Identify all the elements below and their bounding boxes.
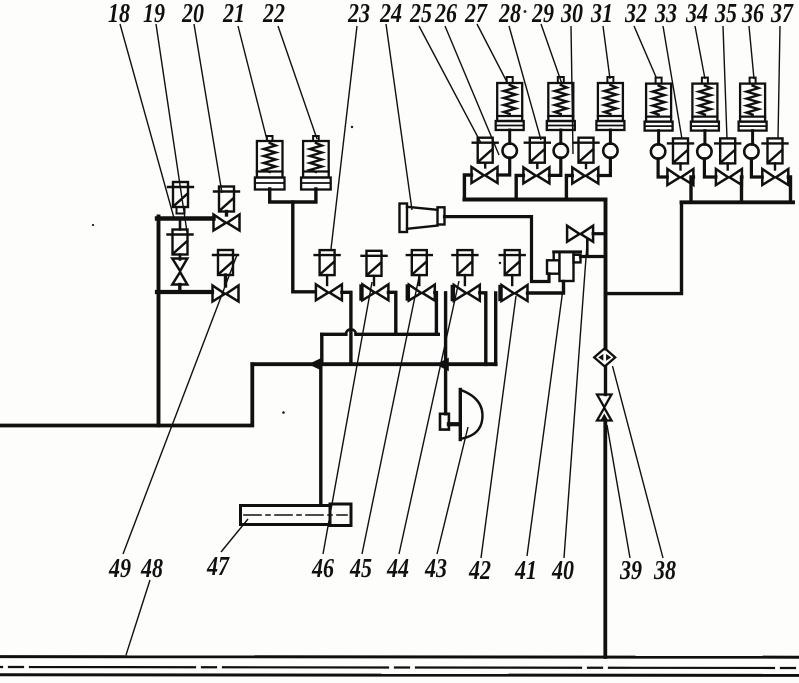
valve M2 box <box>362 251 387 276</box>
wire: hop arc at crossing <box>346 329 356 334</box>
wire: horn line to pump <box>445 217 550 282</box>
leader 47 <box>221 519 248 552</box>
wire: pump outlet to trunk <box>581 255 606 258</box>
wire: collector line y334 <box>322 333 439 336</box>
leader 43 <box>437 427 468 554</box>
wire: lower-left header pipe <box>157 290 212 294</box>
leader 33 <box>663 26 682 139</box>
wire: M1 outlet down to bus (with hop over y334 line) <box>342 292 351 364</box>
leader 34 <box>695 26 705 79</box>
wire: stem box20 to bowtie20 <box>225 212 228 216</box>
svg-text:37: 37 <box>770 0 794 28</box>
valve M4 box <box>452 250 477 275</box>
wire: valve 40 to trunk <box>593 232 605 235</box>
wire: drop from 21/22 manifold <box>293 202 314 292</box>
wire: left rail vertical <box>157 217 161 426</box>
valve 19 <box>168 230 193 255</box>
leader 40 <box>564 244 587 558</box>
wire: rod L2 <box>559 130 562 144</box>
svg-text:25: 25 <box>409 0 432 28</box>
leader 25 <box>419 26 481 143</box>
svg-text:19: 19 <box>143 0 165 28</box>
svg-text:20: 20 <box>181 0 204 28</box>
leader 24 <box>386 24 412 210</box>
valve M3 bowtie <box>409 285 435 301</box>
wire: collector drop to bus <box>320 334 323 364</box>
valve 23 box <box>315 250 340 275</box>
check valve (vertical bowtie) below 19 <box>172 259 187 285</box>
filter 38 diamond <box>594 348 615 366</box>
leader 30 <box>571 26 573 154</box>
wire: L2 to bus <box>516 175 523 199</box>
valve M2 bowtie <box>362 284 388 300</box>
svg-text:46: 46 <box>311 553 334 583</box>
svg-text:28: 28 <box>498 0 521 28</box>
gauge R1 <box>651 144 665 158</box>
wire: gauge L3 to bowtie <box>598 158 610 176</box>
svg-text:24: 24 <box>379 0 402 28</box>
leader 37 <box>778 26 780 139</box>
cylinder 34 <box>691 78 719 131</box>
wire: valve 40 branch down <box>586 240 589 257</box>
svg-text:33: 33 <box>654 0 677 28</box>
svg-text:44: 44 <box>386 553 409 583</box>
svg-text:35: 35 <box>714 0 737 28</box>
pipe 48 centerline <box>0 667 799 668</box>
leader 45 <box>362 277 419 554</box>
cylinder 31 <box>596 77 624 130</box>
wire: M5 inlet riser from bus end <box>494 293 497 364</box>
svg-text:47: 47 <box>206 551 230 581</box>
wire: rod L3 <box>609 130 612 144</box>
wire: drop to bar 47 <box>319 364 322 505</box>
valve M5 bowtie <box>502 285 528 301</box>
svg-text:38: 38 <box>653 555 676 585</box>
valve 39 (vertical bowtie with arrow) <box>597 395 612 422</box>
node: junction dart left <box>310 358 323 370</box>
bowtie R1 <box>667 169 693 185</box>
wire: R3 to bus <box>788 177 790 202</box>
wire: supply line from left edge <box>0 364 252 425</box>
wire: main bus <box>252 362 495 366</box>
svg-text:21: 21 <box>222 0 245 28</box>
svg-text:48: 48 <box>140 553 163 583</box>
manifold bar 47 <box>241 504 352 526</box>
svg-text:26: 26 <box>434 0 457 28</box>
scan specks <box>92 10 526 414</box>
node: junction dart right <box>437 358 449 370</box>
gauge R2 <box>697 144 711 158</box>
valve 49 box <box>213 250 238 275</box>
wire: gauge R1 to bowtie <box>658 159 667 177</box>
wire: trunk upper <box>604 200 608 349</box>
leader 39 <box>607 425 630 558</box>
wire: M5 outlet to pump <box>528 282 564 294</box>
wire: gauge R3 to bowtie <box>751 159 762 177</box>
gauge R3 <box>744 144 758 158</box>
wire: R2 to bus <box>740 177 744 202</box>
svg-text:42: 42 <box>468 555 491 585</box>
valve 33 box <box>668 138 693 163</box>
wire: L3 to bus <box>566 176 572 200</box>
valve M2 inlet bracket <box>359 286 361 300</box>
wire: trunk lower to bottom pipe <box>603 422 607 658</box>
leader 41 <box>527 289 563 556</box>
leader 35 <box>723 26 727 139</box>
shutoff valve 49 bowtie <box>213 286 239 302</box>
wire: top-left header pipe <box>157 216 214 220</box>
pump 41 <box>547 252 581 281</box>
wire: M3 outlet to collector <box>435 293 437 335</box>
valve 35 box <box>715 138 740 163</box>
bowtie L2 <box>523 167 549 183</box>
wire: U manifold under 21/22 <box>270 189 316 202</box>
wire: M4 outlet drop <box>480 293 486 365</box>
svg-text:30: 30 <box>560 0 583 28</box>
bowtie L1 <box>472 167 498 183</box>
valve M3 inlet bracket <box>406 286 408 300</box>
cylinder 27 <box>496 77 524 130</box>
svg-text:32: 32 <box>624 0 647 28</box>
bowtie L3 <box>572 168 598 184</box>
valve 28 box <box>525 138 550 163</box>
gauge 26 <box>503 144 517 158</box>
leader 42 <box>481 296 516 558</box>
wire: trunk mid <box>604 367 607 395</box>
svg-text:34: 34 <box>685 0 708 28</box>
valve M5 box <box>500 250 525 275</box>
wire: L1 to bus <box>464 175 471 200</box>
cylinder 29 <box>547 77 575 130</box>
wire: stem box19 to check valve <box>179 255 182 260</box>
leader 44 <box>399 281 459 554</box>
svg-text:31: 31 <box>590 0 613 28</box>
leader 48 <box>126 580 150 655</box>
leader 49 <box>123 255 237 554</box>
gauge L3 <box>603 144 617 158</box>
bowtie R2 <box>716 169 742 185</box>
cylinder 32 <box>645 78 673 131</box>
leader 36 <box>749 26 754 79</box>
wire: stem box49 to bowtie49 <box>224 275 227 286</box>
pipe 48 top edge <box>0 655 799 659</box>
gauge 30 <box>554 144 568 158</box>
valve 18 <box>168 182 193 214</box>
wire: right bank bus <box>682 200 794 204</box>
svg-text:36: 36 <box>741 0 764 28</box>
svg-text:23: 23 <box>347 0 370 28</box>
svg-text:22: 22 <box>262 0 285 28</box>
wire: gauge L1 to bowtie <box>498 158 510 175</box>
svg-text:45: 45 <box>349 553 372 583</box>
leader 27 <box>477 24 508 84</box>
leader 23 <box>331 26 357 249</box>
pedal bracket <box>440 414 449 430</box>
wire: right bank return <box>606 202 682 293</box>
leader 20 <box>194 24 222 193</box>
leader 46 <box>323 282 372 554</box>
leader 26 <box>445 26 499 155</box>
shutoff valve 20 bowtie <box>214 215 240 231</box>
valve 25 box <box>473 138 498 163</box>
leader 32 <box>634 26 656 77</box>
valve M5 inlet bracket <box>498 286 500 300</box>
leader 28 <box>509 26 541 140</box>
valve M3 box <box>407 250 432 275</box>
leader 22 <box>278 26 317 139</box>
cylinder 36 <box>739 78 767 131</box>
wire: left bank bus <box>464 198 605 202</box>
leader 29 <box>541 24 562 84</box>
wire: gauge R2 to bowtie <box>704 159 716 177</box>
valve M4 bowtie <box>454 285 480 301</box>
svg-text:43: 43 <box>424 553 447 583</box>
svg-text:29: 29 <box>531 0 554 28</box>
bowtie R3 <box>762 169 788 185</box>
wire: R1 to bus <box>691 177 693 202</box>
cylinder 21 <box>255 136 285 190</box>
valve 40 bowtie <box>567 226 593 242</box>
svg-text:49: 49 <box>108 553 131 583</box>
pipe 48 bottom edge <box>0 673 799 677</box>
svg-text:41: 41 <box>514 555 537 585</box>
leader 19 <box>156 24 187 232</box>
svg-text:39: 39 <box>619 555 642 585</box>
wire: M4 inlet riser / pedal line <box>444 293 447 414</box>
wire: stem check valve to lower pipe <box>178 285 181 293</box>
leader 38 <box>613 366 664 558</box>
valve L3 box <box>574 138 599 163</box>
svg-text:18: 18 <box>108 0 130 28</box>
horn 24 <box>400 204 445 233</box>
leader 31 <box>603 26 610 79</box>
leader 21 <box>238 26 267 140</box>
valve M4 inlet bracket <box>451 286 453 300</box>
leader 18 <box>120 24 174 218</box>
pedal plate <box>460 390 482 440</box>
valve 37 box <box>763 138 788 163</box>
cylinder 22 <box>301 136 331 190</box>
valve 23 bowtie M1 <box>316 284 342 300</box>
wire: M2 outlet to collector <box>388 292 395 334</box>
svg-text:27: 27 <box>464 0 488 28</box>
valve 20 upper box <box>214 187 239 212</box>
wire: rod L1 <box>508 130 511 144</box>
wire: gauge L2 to bowtie <box>549 158 560 176</box>
svg-text:40: 40 <box>551 555 574 585</box>
wire: box18 stack vertical <box>179 219 182 230</box>
